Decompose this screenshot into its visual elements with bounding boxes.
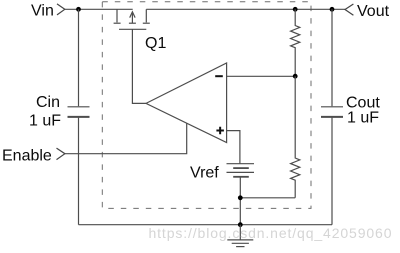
svg-text:Enable: Enable — [2, 148, 52, 165]
transistor Q1 — [114, 9, 167, 52]
node: Vin/Cin junction — [76, 7, 81, 12]
svg-text:Q1: Q1 — [145, 35, 166, 52]
svg-text:1 uF: 1 uF — [347, 110, 379, 127]
node: Vref/R2 junction — [238, 195, 243, 200]
wire: Enable to op-amp lower edge — [65, 123, 187, 153]
resistor R2 — [291, 76, 300, 198]
node: ground rail junction — [238, 222, 243, 227]
node: Cout junction — [330, 7, 335, 12]
svg-text:Cin: Cin — [36, 94, 60, 111]
port Vin — [31, 3, 65, 20]
svg-text:1 uF: 1 uF — [29, 113, 61, 130]
port Enable — [2, 148, 65, 165]
node: feedback R1 top junction — [293, 7, 298, 12]
wire: inverting input to feedback node — [227, 75, 296, 77]
ground rail wire — [79, 224, 333, 226]
wire: Vref bottom to ground rail — [239, 177, 241, 225]
wire: Vin to Q1 source/body — [65, 8, 133, 10]
wire: non-inverting input to Vref — [227, 131, 240, 164]
svg-text:Vref: Vref — [190, 165, 219, 182]
svg-text:https://blog.csdn.net/qq_42059: https://blog.csdn.net/qq_42059060 — [149, 225, 393, 241]
node: feedback divider midpoint — [293, 74, 298, 79]
svg-text:Vin: Vin — [31, 3, 54, 20]
wire: op-amp output to Q1 gate — [132, 29, 146, 103]
resistor R1 — [291, 9, 300, 76]
capacitor Cin — [29, 9, 90, 224]
capacitor Cout — [321, 9, 380, 224]
op-amp U1 error amplifier — [146, 63, 227, 143]
svg-text:Vout: Vout — [357, 3, 390, 20]
port Vout — [345, 3, 390, 20]
wire: R2 bottom to Vref node — [240, 197, 295, 199]
ground — [227, 225, 253, 247]
dashed IC boundary box — [102, 2, 311, 209]
wire: top rail Q1 drain to Vout — [146, 8, 345, 10]
voltage reference Vref (battery) — [190, 164, 254, 182]
